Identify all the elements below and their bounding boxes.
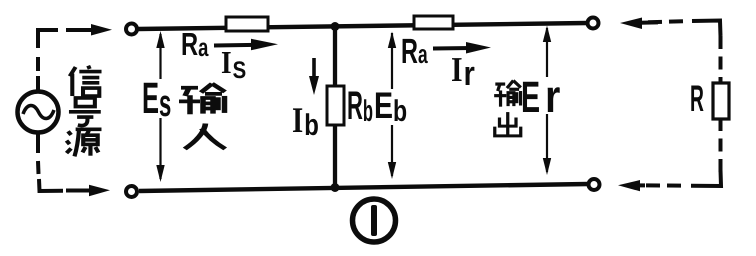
wire top bus <box>138 23 587 29</box>
wire arrow out of top-right terminal <box>620 18 642 30</box>
node Es measuring arrow <box>159 34 161 179</box>
resistor Ra (series, left) <box>226 17 268 31</box>
terminal top-right <box>588 18 599 29</box>
label Is <box>222 52 245 78</box>
label 入 (ru) <box>185 123 225 148</box>
wire source top stub <box>36 76 40 92</box>
wire shunt branch <box>333 26 337 188</box>
AC source sine wave <box>23 105 54 118</box>
label Ib <box>293 108 318 135</box>
wire current arrow Ib <box>312 58 316 80</box>
wire bottom bus <box>139 184 588 191</box>
label Eb <box>376 93 406 122</box>
terminal top-left <box>126 24 137 35</box>
label 号 (hao) <box>69 98 101 126</box>
wire current arrow Ir <box>433 46 472 51</box>
node junction top <box>331 22 340 31</box>
label Ir <box>452 58 474 85</box>
label 出 (chu) <box>495 112 521 136</box>
label Er <box>523 82 560 112</box>
wire dashed top-right <box>648 21 685 22</box>
terminal bottom-right <box>589 179 600 190</box>
resistor R (load) <box>713 83 729 119</box>
node junction bottom <box>331 183 340 192</box>
node figure number 1 <box>353 199 396 242</box>
label Ra1 <box>183 33 209 56</box>
label 源 (yuan) <box>67 129 102 156</box>
label 输 output (shu) <box>494 81 521 107</box>
node Eb measuring arrow <box>391 33 393 176</box>
label R <box>691 86 703 111</box>
wire arrow into top-left terminal <box>66 28 96 32</box>
label Ra2 <box>403 39 428 63</box>
AC source circle <box>18 92 59 133</box>
wire dashed right vertical <box>719 36 723 176</box>
label Rb <box>348 91 372 121</box>
wire arrow into bottom-left terminal <box>66 189 94 193</box>
label Es <box>144 83 171 117</box>
wire current arrow Is <box>214 43 256 48</box>
node Er measuring arrow <box>546 28 548 172</box>
wire dashed source to top-left corner <box>38 30 58 48</box>
resistor Rb (shunt) <box>327 86 344 125</box>
label 输 input (shu) <box>179 84 225 115</box>
wire dashed source to bottom-left corner <box>36 161 41 174</box>
wire source bottom stub <box>36 131 40 153</box>
wire arrow out of bottom-right terminal <box>618 180 640 191</box>
wire dashed bottom-right <box>646 183 684 187</box>
resistor Ra (series, right) <box>414 16 453 29</box>
label 信 (xin) <box>70 66 102 96</box>
terminal bottom-left <box>126 186 137 197</box>
